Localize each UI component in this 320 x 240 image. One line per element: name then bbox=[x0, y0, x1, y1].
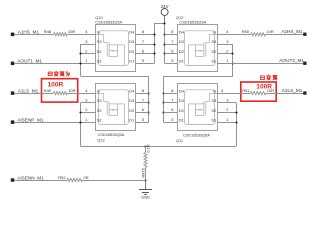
wire Q13 pin2 stub bbox=[81, 107, 96, 112]
node 24V drain bus Q12 bbox=[163, 22, 165, 63]
port AOUT2_M1 bbox=[279, 58, 306, 65]
wire Q13 drain stubs bbox=[135, 88, 149, 123]
wire AISENN to R52 bbox=[14, 180, 67, 182]
svg-text:S2: S2 bbox=[211, 49, 217, 54]
svg-text:D3: D3 bbox=[129, 39, 135, 44]
svg-text:D2: D2 bbox=[129, 49, 135, 54]
svg-text:6: 6 bbox=[171, 107, 174, 112]
svg-text:4: 4 bbox=[221, 88, 224, 93]
port A1HS_M1 bbox=[11, 30, 40, 36]
annotation text 已变更为 bbox=[48, 71, 69, 76]
svg-text:6: 6 bbox=[142, 49, 145, 54]
wire source bottom bus bbox=[81, 146, 236, 148]
annotation text 100R right bbox=[256, 83, 272, 90]
svg-text:AOUT2_M1: AOUT2_M1 bbox=[279, 58, 304, 63]
svg-text:S2: S2 bbox=[211, 108, 217, 113]
svg-text:AOUT1_M1: AOUT1_M1 bbox=[17, 59, 42, 64]
svg-text:S2: S2 bbox=[97, 108, 103, 113]
svg-text:D2: D2 bbox=[129, 108, 135, 113]
wire R51 to A2LS bbox=[266, 93, 303, 95]
transistor Q11 CSD18533Q5A bbox=[176, 84, 218, 144]
svg-text:4: 4 bbox=[85, 29, 88, 34]
svg-text:1: 1 bbox=[226, 117, 229, 122]
svg-text:S1: S1 bbox=[211, 59, 217, 64]
svg-text:0.1R: 0.1R bbox=[145, 144, 150, 153]
svg-text:D3: D3 bbox=[179, 39, 185, 44]
svg-text:S1: S1 bbox=[211, 118, 217, 123]
wire R52 to shunt bbox=[82, 180, 145, 182]
port AISENN_M1 bbox=[11, 175, 44, 181]
node shunt top bbox=[144, 145, 146, 152]
svg-text:GND: GND bbox=[141, 194, 150, 199]
wire Q10 pin2 stub bbox=[81, 49, 96, 54]
wire Q13 pin3 stub bbox=[81, 98, 96, 103]
svg-text:10R: 10R bbox=[266, 29, 273, 34]
wire Q10 drain stubs bbox=[135, 29, 154, 63]
svg-text:0R: 0R bbox=[84, 175, 89, 180]
port AISENP_M1 bbox=[11, 118, 44, 124]
svg-text:CSD18533Q5A: CSD18533Q5A bbox=[183, 133, 210, 138]
svg-text:3: 3 bbox=[85, 39, 88, 44]
svg-text:8: 8 bbox=[171, 88, 174, 93]
svg-text:1: 1 bbox=[85, 58, 88, 63]
svg-text:D4: D4 bbox=[179, 30, 185, 35]
svg-text:S3: S3 bbox=[211, 98, 217, 103]
svg-text:D1: D1 bbox=[129, 118, 135, 123]
port A2HS_M1 bbox=[281, 29, 306, 36]
wire R49 to Q13 pin4 bbox=[67, 88, 95, 94]
wire Q10 pin3 stub bbox=[81, 39, 96, 45]
wire Q12 drain stubs bbox=[165, 29, 178, 63]
svg-text:10R: 10R bbox=[68, 29, 75, 34]
svg-text:D4: D4 bbox=[129, 30, 135, 35]
svg-text:AISENP_M1: AISENP_M1 bbox=[17, 118, 44, 123]
svg-text:R475: R475 bbox=[140, 167, 145, 177]
annotation red callout left bbox=[42, 79, 78, 102]
node Q11 source bus bbox=[235, 103, 237, 147]
resistor R51 10R bbox=[242, 88, 274, 95]
svg-text:3: 3 bbox=[226, 98, 229, 103]
wire Q11 pin4 to R51 bbox=[217, 88, 250, 94]
annotation text 100R left bbox=[48, 81, 64, 88]
svg-text:D2: D2 bbox=[179, 108, 185, 113]
svg-text:G: G bbox=[213, 30, 216, 35]
svg-text:2: 2 bbox=[85, 49, 88, 54]
svg-text:5: 5 bbox=[171, 58, 174, 63]
svg-text:7: 7 bbox=[142, 39, 145, 44]
svg-text:24V: 24V bbox=[161, 4, 169, 9]
power 24V bbox=[161, 4, 169, 23]
svg-text:10R: 10R bbox=[68, 88, 75, 93]
svg-text:A1LS_M1: A1LS_M1 bbox=[18, 89, 39, 94]
wire AOUT2 to port bbox=[217, 58, 303, 63]
svg-text:CSD18533Q5A: CSD18533Q5A bbox=[179, 20, 206, 25]
wire Q12 pin3 stub bbox=[217, 39, 232, 45]
port A1LS_M1 bbox=[11, 89, 39, 95]
svg-text:R50: R50 bbox=[242, 29, 250, 34]
svg-text:8: 8 bbox=[171, 29, 174, 34]
wire AOUT1 to Q13 drains bbox=[81, 76, 150, 122]
annotation text 已变更 bbox=[260, 75, 277, 80]
svg-text:D2: D2 bbox=[179, 49, 185, 54]
svg-text:G: G bbox=[97, 89, 100, 94]
svg-text:D1: D1 bbox=[179, 118, 185, 123]
resistor R475 0.1R bbox=[140, 144, 150, 177]
svg-text:A2HS_M1: A2HS_M1 bbox=[281, 29, 303, 34]
svg-text:S1: S1 bbox=[97, 59, 103, 64]
svg-text:5: 5 bbox=[142, 58, 145, 63]
transistor Q12 CSD18533Q5A bbox=[176, 15, 218, 72]
wire Q12 pin2 stub bbox=[217, 49, 232, 54]
node Q13 source bus bbox=[79, 103, 81, 147]
svg-text:A1HS_M1: A1HS_M1 bbox=[18, 30, 40, 35]
svg-text:S3: S3 bbox=[211, 39, 217, 44]
wire Q12 pin4 to R50 bbox=[217, 29, 250, 34]
svg-text:R48: R48 bbox=[44, 29, 52, 34]
transistor Q13 CSD18533Q5A bbox=[96, 84, 136, 143]
wire R48 to Q10 pin4 bbox=[67, 29, 95, 34]
node 24V drain bus Q10 bbox=[153, 23, 164, 63]
wire Q11 pin3 stub bbox=[217, 98, 236, 103]
svg-text:5: 5 bbox=[142, 117, 145, 122]
wire Q11 drain stubs bbox=[163, 88, 177, 123]
svg-text:5: 5 bbox=[171, 117, 174, 122]
svg-text:S3: S3 bbox=[97, 39, 103, 44]
svg-text:S1: S1 bbox=[97, 118, 103, 123]
node AOUT2 source bus bbox=[231, 44, 233, 77]
svg-text:2: 2 bbox=[226, 49, 229, 54]
svg-text:D4: D4 bbox=[129, 89, 135, 94]
svg-text:R52: R52 bbox=[58, 175, 66, 180]
svg-text:7: 7 bbox=[142, 98, 145, 103]
svg-text:G: G bbox=[97, 30, 100, 35]
svg-text:D3: D3 bbox=[129, 98, 135, 103]
svg-text:2: 2 bbox=[226, 107, 229, 112]
svg-text:CSD18533Q5A: CSD18533Q5A bbox=[95, 20, 122, 25]
svg-text:4: 4 bbox=[226, 29, 229, 34]
wire AISENP to Q13 pin1 bbox=[14, 117, 96, 123]
wire AOUT2 to Q11 drains bbox=[162, 77, 232, 123]
svg-text:8: 8 bbox=[142, 88, 145, 93]
svg-text:R49: R49 bbox=[44, 88, 52, 93]
wire shunt to AISENN bbox=[144, 167, 146, 181]
node AOUT1 source bus bbox=[79, 44, 81, 76]
wire A1HS to R48 bbox=[14, 34, 54, 36]
svg-text:10R: 10R bbox=[267, 88, 274, 93]
svg-text:4: 4 bbox=[85, 88, 88, 93]
svg-text:Q11: Q11 bbox=[176, 138, 183, 143]
wire Q11 pin2 stub bbox=[217, 107, 236, 112]
svg-text:8: 8 bbox=[142, 29, 145, 34]
wire Q11 pin1 stub bbox=[217, 117, 236, 123]
svg-text:D3: D3 bbox=[179, 98, 185, 103]
resistor R50 10R bbox=[242, 29, 274, 36]
svg-text:S2: S2 bbox=[97, 49, 103, 54]
ground GND bbox=[139, 180, 152, 199]
svg-text:D4: D4 bbox=[179, 89, 185, 94]
resistor R49 10R bbox=[44, 88, 76, 95]
wire A1LS to R49 bbox=[14, 93, 53, 95]
svg-text:3: 3 bbox=[226, 39, 229, 44]
svg-text:7: 7 bbox=[171, 39, 174, 44]
svg-text:AISENN_M1: AISENN_M1 bbox=[17, 175, 44, 180]
wire AOUT1 to Q10 pin1 bbox=[14, 58, 96, 63]
transistor Q10 CSD18533Q5A bbox=[95, 15, 135, 72]
port A2LS_M1 bbox=[282, 88, 307, 95]
svg-text:1: 1 bbox=[226, 58, 229, 63]
port AOUT1_M1 bbox=[11, 59, 43, 65]
svg-text:6: 6 bbox=[142, 107, 145, 112]
svg-text:S3: S3 bbox=[97, 98, 103, 103]
svg-text:6: 6 bbox=[171, 49, 174, 54]
wire R50 to A2HS bbox=[265, 34, 303, 36]
svg-text:Q13: Q13 bbox=[97, 138, 104, 143]
svg-text:G: G bbox=[213, 89, 216, 94]
resistor R48 10R bbox=[44, 29, 76, 36]
svg-text:1: 1 bbox=[85, 117, 88, 122]
svg-text:7: 7 bbox=[171, 98, 174, 103]
svg-text:D1: D1 bbox=[129, 59, 135, 64]
svg-text:CSD18533Q5A: CSD18533Q5A bbox=[98, 132, 125, 137]
svg-text:3: 3 bbox=[85, 98, 88, 103]
svg-text:2: 2 bbox=[85, 107, 88, 112]
svg-text:D1: D1 bbox=[179, 59, 185, 64]
svg-text:A2LS_M1: A2LS_M1 bbox=[282, 88, 303, 93]
annotation red callout right bbox=[241, 82, 276, 101]
resistor R52 0R bbox=[58, 175, 88, 182]
svg-text:R51: R51 bbox=[242, 88, 250, 93]
